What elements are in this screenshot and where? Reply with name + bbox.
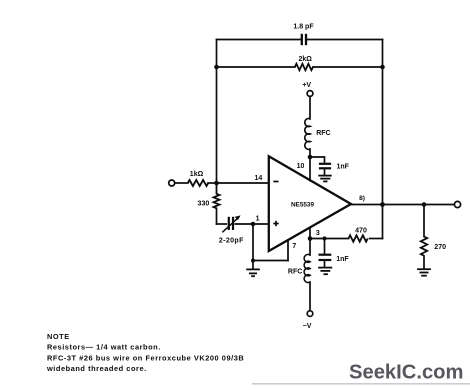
terminal input (169, 180, 175, 186)
note text block (46, 332, 244, 373)
power -V terminal (307, 311, 313, 317)
wire top RFC to pin 10 node (309, 149, 311, 157)
inductor RFC bottom coil (304, 254, 310, 282)
junction dot at 2k left (214, 65, 219, 70)
svg-text:+V: +V (302, 82, 311, 89)
svg-text:RFC-3T #26 bus wire on Ferroxc: RFC-3T #26 bus wire on Ferroxcube VK200 … (47, 353, 244, 362)
svg-text:−V: −V (303, 323, 312, 330)
capacitor variable arrow (222, 215, 240, 232)
wire +V to top RFC (309, 96, 311, 119)
wire bottom 1nF tap (324, 239, 326, 255)
resistor 2k ohm zigzag (295, 64, 313, 70)
wire bottom 1nF to its ground (324, 261, 326, 267)
ground for top 1nF (318, 176, 331, 182)
wire variable capacitor to pin 1 (235, 223, 268, 225)
junction dot at pin 1 (251, 222, 256, 227)
svg-text:8): 8) (359, 195, 365, 202)
wire pin3 node to bottom RFC (309, 239, 311, 256)
svg-text:2kΩ: 2kΩ (298, 56, 312, 63)
svg-text:7: 7 (292, 243, 296, 250)
junction dot at input node (214, 181, 219, 186)
wire 2k feedback right segment (313, 66, 383, 68)
junction dot at 270 tap (422, 202, 427, 207)
svg-text:SeekIC.com: SeekIC.com (349, 361, 463, 383)
wire left feedback bus (216, 40, 218, 184)
watermark underline (252, 383, 470, 385)
wire 2k feedback left segment (217, 66, 295, 68)
wire pin1 junction down to ground (252, 224, 254, 269)
wire 330 bottom to corner (216, 208, 218, 224)
svg-text:14: 14 (255, 175, 263, 182)
capacitor 1nF top plates (319, 164, 331, 169)
svg-text:470: 470 (355, 227, 367, 234)
svg-text:wideband threaded core.: wideband threaded core. (46, 364, 147, 373)
op-amp U1 NE5539 triangle (269, 156, 351, 251)
svg-text:1nF: 1nF (337, 164, 350, 171)
power +V terminal (307, 91, 313, 97)
svg-text:RFC: RFC (288, 268, 302, 275)
wire 470 to right bus (370, 238, 383, 240)
wire node to pin 14 (217, 182, 269, 184)
svg-text:1.8 pF: 1.8 pF (293, 24, 314, 31)
wire 1k to input node (208, 182, 217, 184)
svg-text:3: 3 (316, 230, 320, 237)
ground for 270 (417, 269, 431, 276)
wire pin 3 node to 470 (310, 238, 349, 240)
resistor 1k ohm zigzag (188, 180, 208, 186)
svg-text:Resistors— 1/4 watt carbon.: Resistors— 1/4 watt carbon. (47, 343, 161, 352)
svg-text:1kΩ: 1kΩ (190, 171, 204, 178)
svg-text:1: 1 (256, 215, 260, 222)
capacitor C 1.8 pF plates (302, 34, 306, 45)
wire top feedback right segment (307, 39, 382, 41)
wire pin10 node to top 1nF (310, 157, 325, 163)
svg-text:1nF: 1nF (336, 256, 349, 263)
ground for bottom 1nF (318, 268, 332, 275)
svg-text:270: 270 (434, 244, 446, 251)
wire op-amp output (351, 204, 454, 206)
wire corner to variable capacitor (217, 223, 227, 225)
svg-text:NOTE: NOTE (47, 332, 70, 341)
wire pin 7 down from triangle (287, 240, 289, 261)
capacitor 1nF bottom plates (319, 255, 332, 260)
resistor 270 zigzag vertical (421, 237, 427, 256)
svg-text:330: 330 (198, 200, 210, 207)
resistor 470 zigzag (349, 235, 368, 241)
wire input to 1k resistor (175, 182, 188, 184)
wire 270 top (423, 205, 425, 237)
ground for pin1/pin7 (246, 269, 260, 276)
svg-text:10: 10 (297, 163, 305, 170)
junction dot at 2k right (380, 65, 385, 70)
junction dot at output bus crossing (380, 202, 385, 207)
capacitor variable 2-20pF plates (229, 217, 233, 230)
wire top 1nF to its ground (324, 169, 326, 174)
junction dot at pin 3 node (308, 236, 313, 241)
svg-text:2-20pF: 2-20pF (219, 238, 244, 245)
wire pin 3 from triangle to node (309, 227, 311, 238)
wire pin 7 to ground wire (253, 260, 288, 262)
svg-text:NE5539: NE5539 (291, 202, 315, 209)
junction dot at bottom 1nF tap (322, 236, 326, 240)
wire 270 bottom to ground (423, 256, 425, 268)
op-amp non-inverting input plus sign (273, 221, 278, 226)
inductor RFC top coil (305, 119, 310, 150)
wire pin 10 into op-amp (309, 157, 311, 181)
terminal output (454, 201, 460, 207)
op-amp inverting input minus sign (273, 181, 278, 183)
junction dot at pin 10 node (308, 155, 313, 160)
junction dot at pin7 ground join (251, 259, 255, 263)
wire right output bus (382, 40, 384, 239)
resistor 330 zigzag vertical (214, 183, 220, 208)
wire top feedback left segment (217, 39, 301, 41)
svg-text:RFC: RFC (316, 130, 330, 137)
wire bottom RFC to -V terminal (309, 282, 311, 311)
